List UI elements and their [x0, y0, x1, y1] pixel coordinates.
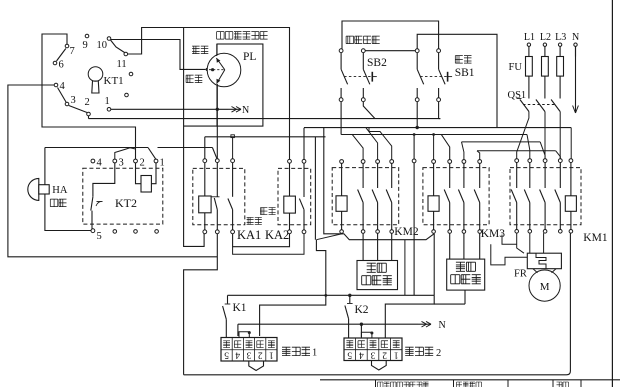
svg-text:L1: L1	[524, 32, 535, 43]
svg-text:5: 5	[97, 231, 102, 242]
svg-text:4: 4	[60, 81, 66, 92]
svg-text:1: 1	[269, 350, 274, 360]
svg-text:KT1: KT1	[104, 75, 124, 87]
svg-text:SB2: SB2	[367, 57, 387, 69]
svg-text:KA1: KA1	[237, 228, 261, 242]
svg-text:FU: FU	[509, 62, 523, 73]
svg-text:K1: K1	[233, 302, 247, 314]
svg-text:9: 9	[83, 40, 88, 51]
svg-text:KT2: KT2	[115, 196, 137, 210]
svg-text:KM2: KM2	[394, 226, 419, 238]
svg-text:N: N	[572, 32, 579, 43]
svg-text:HA: HA	[52, 185, 68, 196]
svg-text:3: 3	[370, 349, 375, 359]
svg-text:KA2: KA2	[265, 228, 289, 242]
svg-text:KM1: KM1	[583, 232, 608, 244]
svg-text:SB1: SB1	[455, 67, 475, 79]
svg-text:N: N	[242, 105, 249, 116]
svg-text:2: 2	[85, 97, 90, 108]
svg-text:1: 1	[394, 349, 399, 359]
svg-text:3: 3	[246, 350, 251, 360]
svg-text:M: M	[540, 281, 550, 293]
svg-text:4: 4	[359, 349, 364, 359]
svg-text:3: 3	[119, 158, 124, 169]
svg-text:3: 3	[71, 95, 76, 106]
svg-text:1: 1	[160, 158, 165, 169]
svg-text:5: 5	[347, 349, 352, 359]
svg-text:1: 1	[105, 96, 110, 107]
svg-text:10: 10	[97, 40, 108, 51]
svg-text:7: 7	[70, 46, 75, 57]
svg-text:5: 5	[224, 350, 229, 360]
svg-text:L3: L3	[555, 32, 566, 43]
svg-text:6: 6	[59, 60, 64, 71]
svg-text:K2: K2	[355, 304, 369, 316]
svg-text:2: 2	[436, 348, 441, 359]
svg-text:QS1: QS1	[508, 90, 527, 101]
svg-text:PL: PL	[243, 51, 256, 63]
svg-text:FR: FR	[514, 269, 527, 280]
svg-text:1: 1	[312, 348, 317, 359]
svg-text:L2: L2	[540, 32, 551, 43]
svg-text:2: 2	[258, 350, 263, 360]
svg-text:11: 11	[117, 59, 127, 70]
svg-text:2: 2	[382, 349, 387, 359]
svg-text:4: 4	[235, 350, 240, 360]
svg-text:N: N	[439, 320, 446, 331]
svg-text:4: 4	[97, 158, 103, 169]
svg-text:2: 2	[140, 158, 145, 169]
